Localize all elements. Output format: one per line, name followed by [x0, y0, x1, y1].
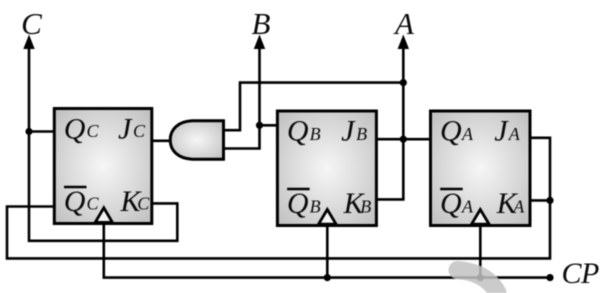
- junction dot A at QA: [400, 136, 407, 143]
- wire: KA stub: [530, 199, 550, 202]
- junction dot FF3 clock: [477, 274, 484, 281]
- svg-text:C: C: [21, 6, 42, 41]
- svg-text:J: J: [494, 114, 509, 147]
- wire: FF2 clock: [326, 226, 329, 278]
- svg-text:A: A: [512, 197, 525, 217]
- svg-text:B: B: [310, 124, 321, 144]
- svg-text:B: B: [252, 6, 271, 41]
- wire: C feedback loop from node C down, across bottom, up into KC: [29, 40, 177, 241]
- CP terminal dot: [546, 274, 553, 281]
- wire: QC output stub to node C: [29, 130, 55, 133]
- clock triangle U1: [95, 208, 112, 223]
- svg-text:Q: Q: [440, 187, 462, 220]
- svg-text:C: C: [137, 194, 150, 214]
- svg-text:C: C: [87, 121, 100, 141]
- node B junction dot: [256, 122, 263, 129]
- wire: QB stub: [260, 124, 279, 127]
- wire: JC to AND gate output: [153, 140, 172, 143]
- svg-text:A: A: [461, 124, 474, 144]
- svg-text:CP: CP: [562, 257, 600, 290]
- node C arrowhead: [23, 35, 34, 50]
- wire: JB to QA: [377, 138, 431, 141]
- wire: Qbar_C to long bottom rail up to JA: [7, 138, 550, 259]
- wire: FF3 clock: [479, 226, 482, 278]
- svg-text:B: B: [360, 197, 371, 217]
- flip-flop U1 (C) box: [54, 109, 152, 224]
- svg-text:C: C: [133, 121, 146, 141]
- node B arrowhead: [254, 35, 265, 50]
- svg-text:A: A: [393, 6, 415, 41]
- watermark swoosh: [458, 270, 498, 293]
- flip-flop U3 (A) box: [431, 111, 531, 226]
- junction dot FF2 clock: [324, 274, 331, 281]
- wire: AND upper input from node A: [224, 83, 404, 131]
- svg-text:Q: Q: [440, 114, 462, 147]
- clock triangle U2: [319, 210, 337, 225]
- node A arrowhead: [398, 35, 409, 50]
- svg-text:J: J: [118, 112, 133, 145]
- svg-text:Q: Q: [287, 114, 309, 147]
- wire: AND lower input from node B: [224, 40, 260, 149]
- wire: node A vertical down into KB: [377, 40, 403, 199]
- node C junction dot: [25, 128, 32, 135]
- junction dot A top: [400, 79, 407, 86]
- svg-text:B: B: [356, 124, 367, 144]
- svg-text:B: B: [310, 197, 321, 217]
- wire: CP rail with FF1 clock: [104, 224, 550, 278]
- svg-text:Q: Q: [64, 185, 86, 218]
- flip-flop U2 (B) box: [277, 111, 376, 226]
- svg-text:Q: Q: [64, 112, 86, 145]
- svg-text:A: A: [461, 197, 474, 217]
- svg-text:Q: Q: [287, 187, 309, 220]
- svg-text:C: C: [87, 194, 100, 214]
- svg-text:A: A: [508, 124, 521, 144]
- clock triangle U3: [472, 210, 490, 225]
- junction dot KA: [546, 197, 553, 204]
- AND gate G1 (mirrored, output to left): [170, 121, 223, 159]
- svg-text:J: J: [341, 114, 356, 147]
